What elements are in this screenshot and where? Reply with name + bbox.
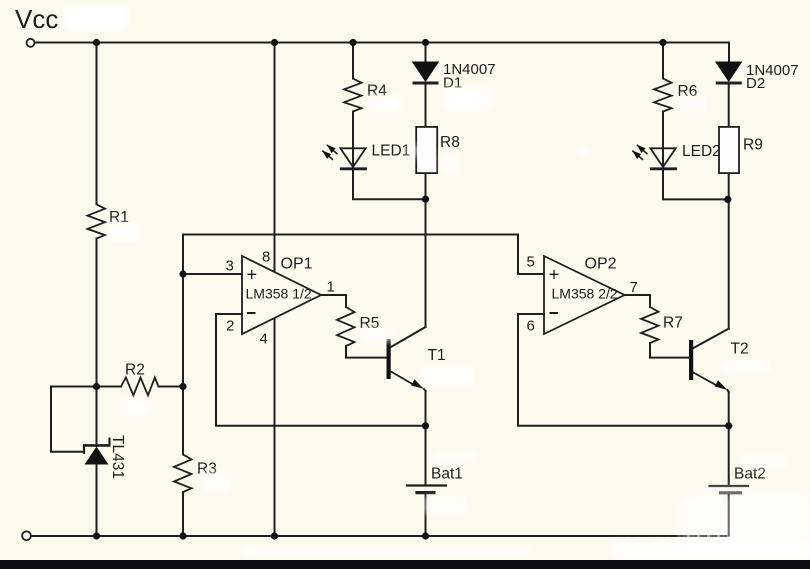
wire D2 branch vertical x=728.7 (728, 43, 730, 329)
wire TL431 reference hook (51, 387, 97, 452)
TL431 shunt regulator (83, 435, 126, 479)
svg-text:1: 1 (327, 279, 335, 296)
resistor R4 (344, 79, 387, 112)
svg-text:T2: T2 (731, 341, 749, 358)
svg-text:T1: T1 (428, 347, 446, 364)
svg-text:LM358 2/2: LM358 2/2 (552, 286, 618, 302)
svg-text:LM358 1/2: LM358 1/2 (246, 286, 312, 302)
wire T2 emitter to Bat2 node (728, 392, 730, 486)
wire Bat1 to ground (425, 494, 427, 536)
junction ground/R3 (179, 532, 186, 539)
svg-text:R2: R2 (125, 362, 145, 379)
wire LED1 to R8 node (353, 170, 426, 199)
footer dark bar (0, 560, 810, 569)
junction Vcc/D1 (422, 39, 429, 46)
svg-text:6: 6 (527, 318, 535, 335)
wire Bat2 to ground (728, 494, 730, 536)
wire T1 emitter to Bat1 node (425, 391, 427, 485)
wire op-amp supply vertical x=274.5 (274, 43, 276, 537)
svg-text:Bat1: Bat1 (431, 466, 463, 483)
op-amp OP1 (226, 249, 335, 348)
svg-text:8: 8 (262, 249, 270, 266)
svg-text:Bat2: Bat2 (734, 466, 766, 483)
wire R6 branch vertical x=663 (662, 43, 664, 169)
svg-text:LED1: LED1 (372, 143, 411, 160)
wire OP1 pin2 feedback (216, 314, 426, 426)
svg-text:4: 4 (260, 330, 268, 347)
wire bottom ground rail (31, 535, 729, 537)
resistor R3 (174, 455, 217, 493)
wire D1 branch vertical x=425.5 (425, 43, 427, 328)
diode D2 1N4007 (715, 62, 799, 93)
resistor R1 (88, 204, 129, 238)
resistor R8 (416, 127, 460, 173)
battery Bat1 (406, 466, 463, 493)
svg-text:+: + (549, 265, 560, 285)
junction ground/supply (271, 532, 278, 539)
junction Vcc/R1 (93, 39, 100, 46)
transistor T1 (387, 327, 446, 391)
svg-text:R8: R8 (440, 134, 460, 151)
wire LED2 to R9 node (663, 170, 728, 199)
wire R4 branch vertical x=353 (352, 43, 354, 169)
diode D1 1N4007 (412, 61, 496, 92)
wire OP1 pin3 input (183, 273, 242, 275)
svg-text:LED2: LED2 (682, 143, 721, 160)
svg-text:R9: R9 (743, 137, 763, 154)
resistor R2 (97, 362, 184, 396)
wire reference line to op-amp inputs (183, 235, 544, 275)
junction ground/TL431 (93, 532, 100, 539)
junction ground/Bat1 (422, 532, 429, 539)
junction Vcc/R4 (349, 39, 356, 46)
junction LED1/R8 (422, 196, 429, 203)
wire OP2 output pin7 (625, 295, 650, 307)
junction R2/R3 (179, 383, 186, 390)
wire reference node vertical x=183 (182, 235, 184, 537)
resistor R5 (337, 307, 379, 346)
op-amp OP2 (527, 254, 638, 335)
svg-text:R7: R7 (663, 315, 683, 332)
junction ref/pin3 (179, 270, 186, 277)
wire R7 to T2 base (650, 343, 689, 358)
junction Vcc/supply (271, 39, 278, 46)
svg-text:+: + (247, 265, 258, 285)
resistor R6 (654, 79, 697, 112)
svg-text:2: 2 (226, 318, 234, 335)
wire R5 to T1 base (346, 346, 387, 358)
terminal Vcc open circle (27, 39, 35, 47)
wire top Vcc rail (35, 42, 730, 44)
junction T1 emitter/Bat1/feedback (422, 422, 429, 429)
svg-text:OP1: OP1 (281, 256, 313, 273)
svg-text:OP2: OP2 (585, 256, 617, 273)
transistor T2 (689, 329, 749, 392)
wire R1 TL431 branch vertical x=96.5 (96, 43, 98, 537)
LED2 (632, 143, 720, 169)
junction R2/TL431 (93, 383, 100, 390)
svg-text:5: 5 (527, 254, 535, 271)
svg-text:7: 7 (630, 279, 638, 296)
junction Vcc/R6 (659, 39, 666, 46)
label Vcc (15, 4, 58, 34)
battery Bat2 (708, 466, 765, 493)
svg-text:D2: D2 (746, 75, 765, 92)
wire ground rail right faded segment (600, 494, 729, 536)
svg-text:TL431: TL431 (109, 435, 126, 479)
wire OP2 pin6 feedback (518, 314, 729, 426)
resistor R9 (719, 127, 763, 173)
junction LED2/R9 (724, 196, 731, 203)
resistor R7 (641, 307, 683, 343)
junction T2 emitter/Bat2/feedback (725, 422, 732, 429)
wire OP1 output pin1 (321, 295, 346, 307)
svg-text:3: 3 (226, 258, 234, 275)
LED1 (322, 143, 410, 169)
terminal ground open circle (22, 531, 31, 540)
svg-text:Vcc: Vcc (15, 4, 58, 34)
